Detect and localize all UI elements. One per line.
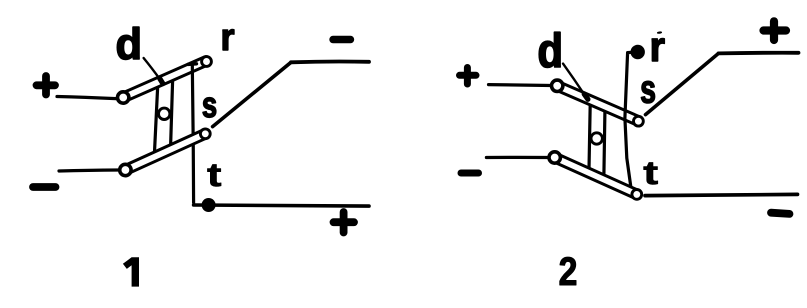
blade bottom (capsule outline) [555,158,637,195]
link knob circle [591,133,602,144]
wire from - to bottom blade pivot [486,156,548,159]
wire top-right horizontal to minus terminal [291,60,369,65]
label s (fig 2) [641,81,654,103]
link bar vertical left [589,105,590,170]
label t (fig 1) [208,165,222,187]
label + (bottom right output, fig 1) [334,212,355,233]
ink speck above r label [657,31,662,34]
wire s diagonal up-right [646,53,719,114]
wire from + to top blade pivot [57,97,116,99]
wire r to t vertical [188,62,197,66]
pivot hole of bottom blade [549,152,560,163]
wire r down to t [625,52,636,190]
label + (top right output, fig 2) [764,21,787,40]
label s (fig 1) [203,98,216,118]
label t (fig 2) [644,163,658,185]
link bar vertical right [171,81,173,146]
label r (fig 2) [652,38,664,61]
label d (fig 1) [117,27,139,59]
node t dot [202,198,216,212]
label d (fig 2) [539,32,560,67]
link bar vertical left [155,88,158,152]
label - (left input, fig 1) [33,183,56,191]
pivot hole of bottom blade [120,164,131,175]
wire top-right horizontal to plus terminal [719,51,799,55]
wire t horizontal to minus terminal [645,194,798,195]
figure number 2 [560,257,576,285]
label r (fig 1) [223,30,234,51]
label + (left input, fig 2) [460,68,477,85]
contact hole t on bottom blade [632,190,642,200]
pivot hole of top blade [552,80,563,91]
label + (left input, fig 1) [37,76,56,95]
pointer line from label d to blade [563,64,585,96]
figure number 1 [123,257,139,286]
contact hole s on top blade [634,116,644,126]
pointer line from label d to blade [144,58,161,80]
label - (top right output, fig 1) [333,36,351,43]
link bar vertical right [604,106,605,175]
wire t horizontal to plus terminal [194,205,369,206]
contact hole r on top blade [202,57,212,67]
node r dot [631,45,645,59]
contact hole s on bottom blade [200,129,210,139]
pivot hole of top blade [118,92,129,103]
blade top (capsule outline) [557,86,638,121]
wire from - to bottom blade pivot [59,170,119,171]
blade top (capsule outline) [123,61,206,98]
blade bottom (capsule outline) [125,134,205,170]
link knob circle [159,108,170,119]
label - (bottom right output, fig 2) [771,213,790,214]
label - (left input, fig 2) [461,170,479,177]
wire from + to top blade pivot [489,83,552,87]
wire s diagonal up-right [213,62,291,126]
